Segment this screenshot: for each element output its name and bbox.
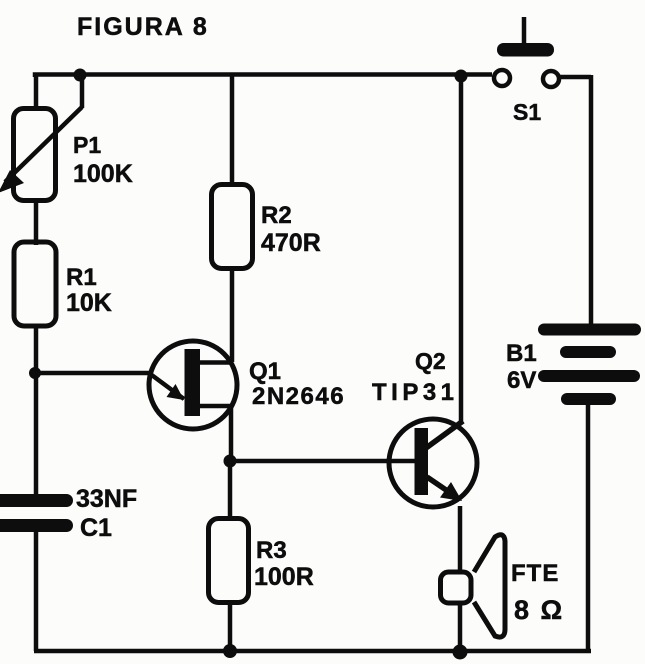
- wire C1 to bottom rail: [34, 531, 39, 651]
- resistor R2: [212, 185, 253, 269]
- node junction dot P1 wiper on top rail: [74, 69, 87, 82]
- transistor Q2 (TIP31): [389, 419, 477, 507]
- svg-text:R3: R3: [256, 537, 287, 564]
- wire P1 to R1: [34, 198, 39, 245]
- wire R1 to C1: [34, 324, 39, 497]
- wire top rail left segment: [35, 75, 492, 78]
- svg-text:TIP31: TIP31: [372, 379, 459, 406]
- wire speaker to bottom rail: [458, 603, 463, 652]
- switch S1: [494, 17, 559, 87]
- wire right rail bottom (battery to bottom rail): [586, 403, 591, 653]
- node junction dot Q2 collector on top rail: [455, 70, 468, 83]
- svg-text:C1: C1: [80, 514, 112, 542]
- node junction dot Q1/R3/Q2: [224, 455, 237, 468]
- resistor R3: [209, 519, 249, 603]
- wire right rail top (to battery): [589, 75, 594, 326]
- wire junction down to R3: [228, 460, 233, 518]
- svg-text:Q2: Q2: [415, 348, 446, 374]
- battery B1: [538, 324, 641, 406]
- wire bottom rail: [34, 649, 591, 654]
- svg-text:Q1: Q1: [249, 358, 281, 385]
- svg-text:100K: 100K: [73, 160, 133, 188]
- node junction dot emitter: [29, 367, 41, 379]
- potentiometer P1: [0, 74, 82, 201]
- wire Q2 emitter down to speaker: [458, 506, 463, 571]
- svg-text:FTE: FTE: [511, 560, 559, 587]
- svg-text:2N2646: 2N2646: [252, 383, 345, 410]
- capacitor C1: [0, 494, 73, 532]
- wire top rail right segment: [560, 75, 591, 80]
- svg-text:100R: 100R: [254, 563, 314, 591]
- wire R2 to Q1 base1: [230, 269, 235, 362]
- node junction dot R3 bottom: [223, 644, 237, 658]
- svg-text:R2: R2: [261, 202, 292, 229]
- svg-text:FIGURA 8: FIGURA 8: [77, 13, 209, 41]
- node junction dot speaker bottom: [453, 645, 468, 660]
- wire junction to Q2 base: [230, 459, 416, 464]
- transistor Q1 (UJT 2N2646): [149, 341, 237, 429]
- wire emitter horizontal to Q1: [35, 371, 150, 376]
- svg-text:6V: 6V: [507, 367, 536, 394]
- wire Q1 base2 down to junction: [229, 406, 234, 461]
- wire R3 to bottom rail: [228, 603, 233, 651]
- speaker FTE: [441, 535, 506, 637]
- svg-text:8 Ω: 8 Ω: [514, 595, 564, 625]
- svg-text:P1: P1: [73, 132, 101, 158]
- svg-text:470R: 470R: [261, 229, 321, 257]
- wire left rail top (rail to P1): [34, 73, 39, 111]
- resistor R1: [14, 242, 56, 326]
- wire top rail to R2: [230, 73, 235, 185]
- svg-text:10K: 10K: [66, 289, 112, 317]
- svg-text:R1: R1: [66, 264, 97, 291]
- svg-text:33NF: 33NF: [76, 485, 137, 513]
- svg-text:B1: B1: [506, 340, 537, 367]
- svg-text:S1: S1: [513, 99, 541, 125]
- wire Q2 collector from top rail: [459, 74, 464, 422]
